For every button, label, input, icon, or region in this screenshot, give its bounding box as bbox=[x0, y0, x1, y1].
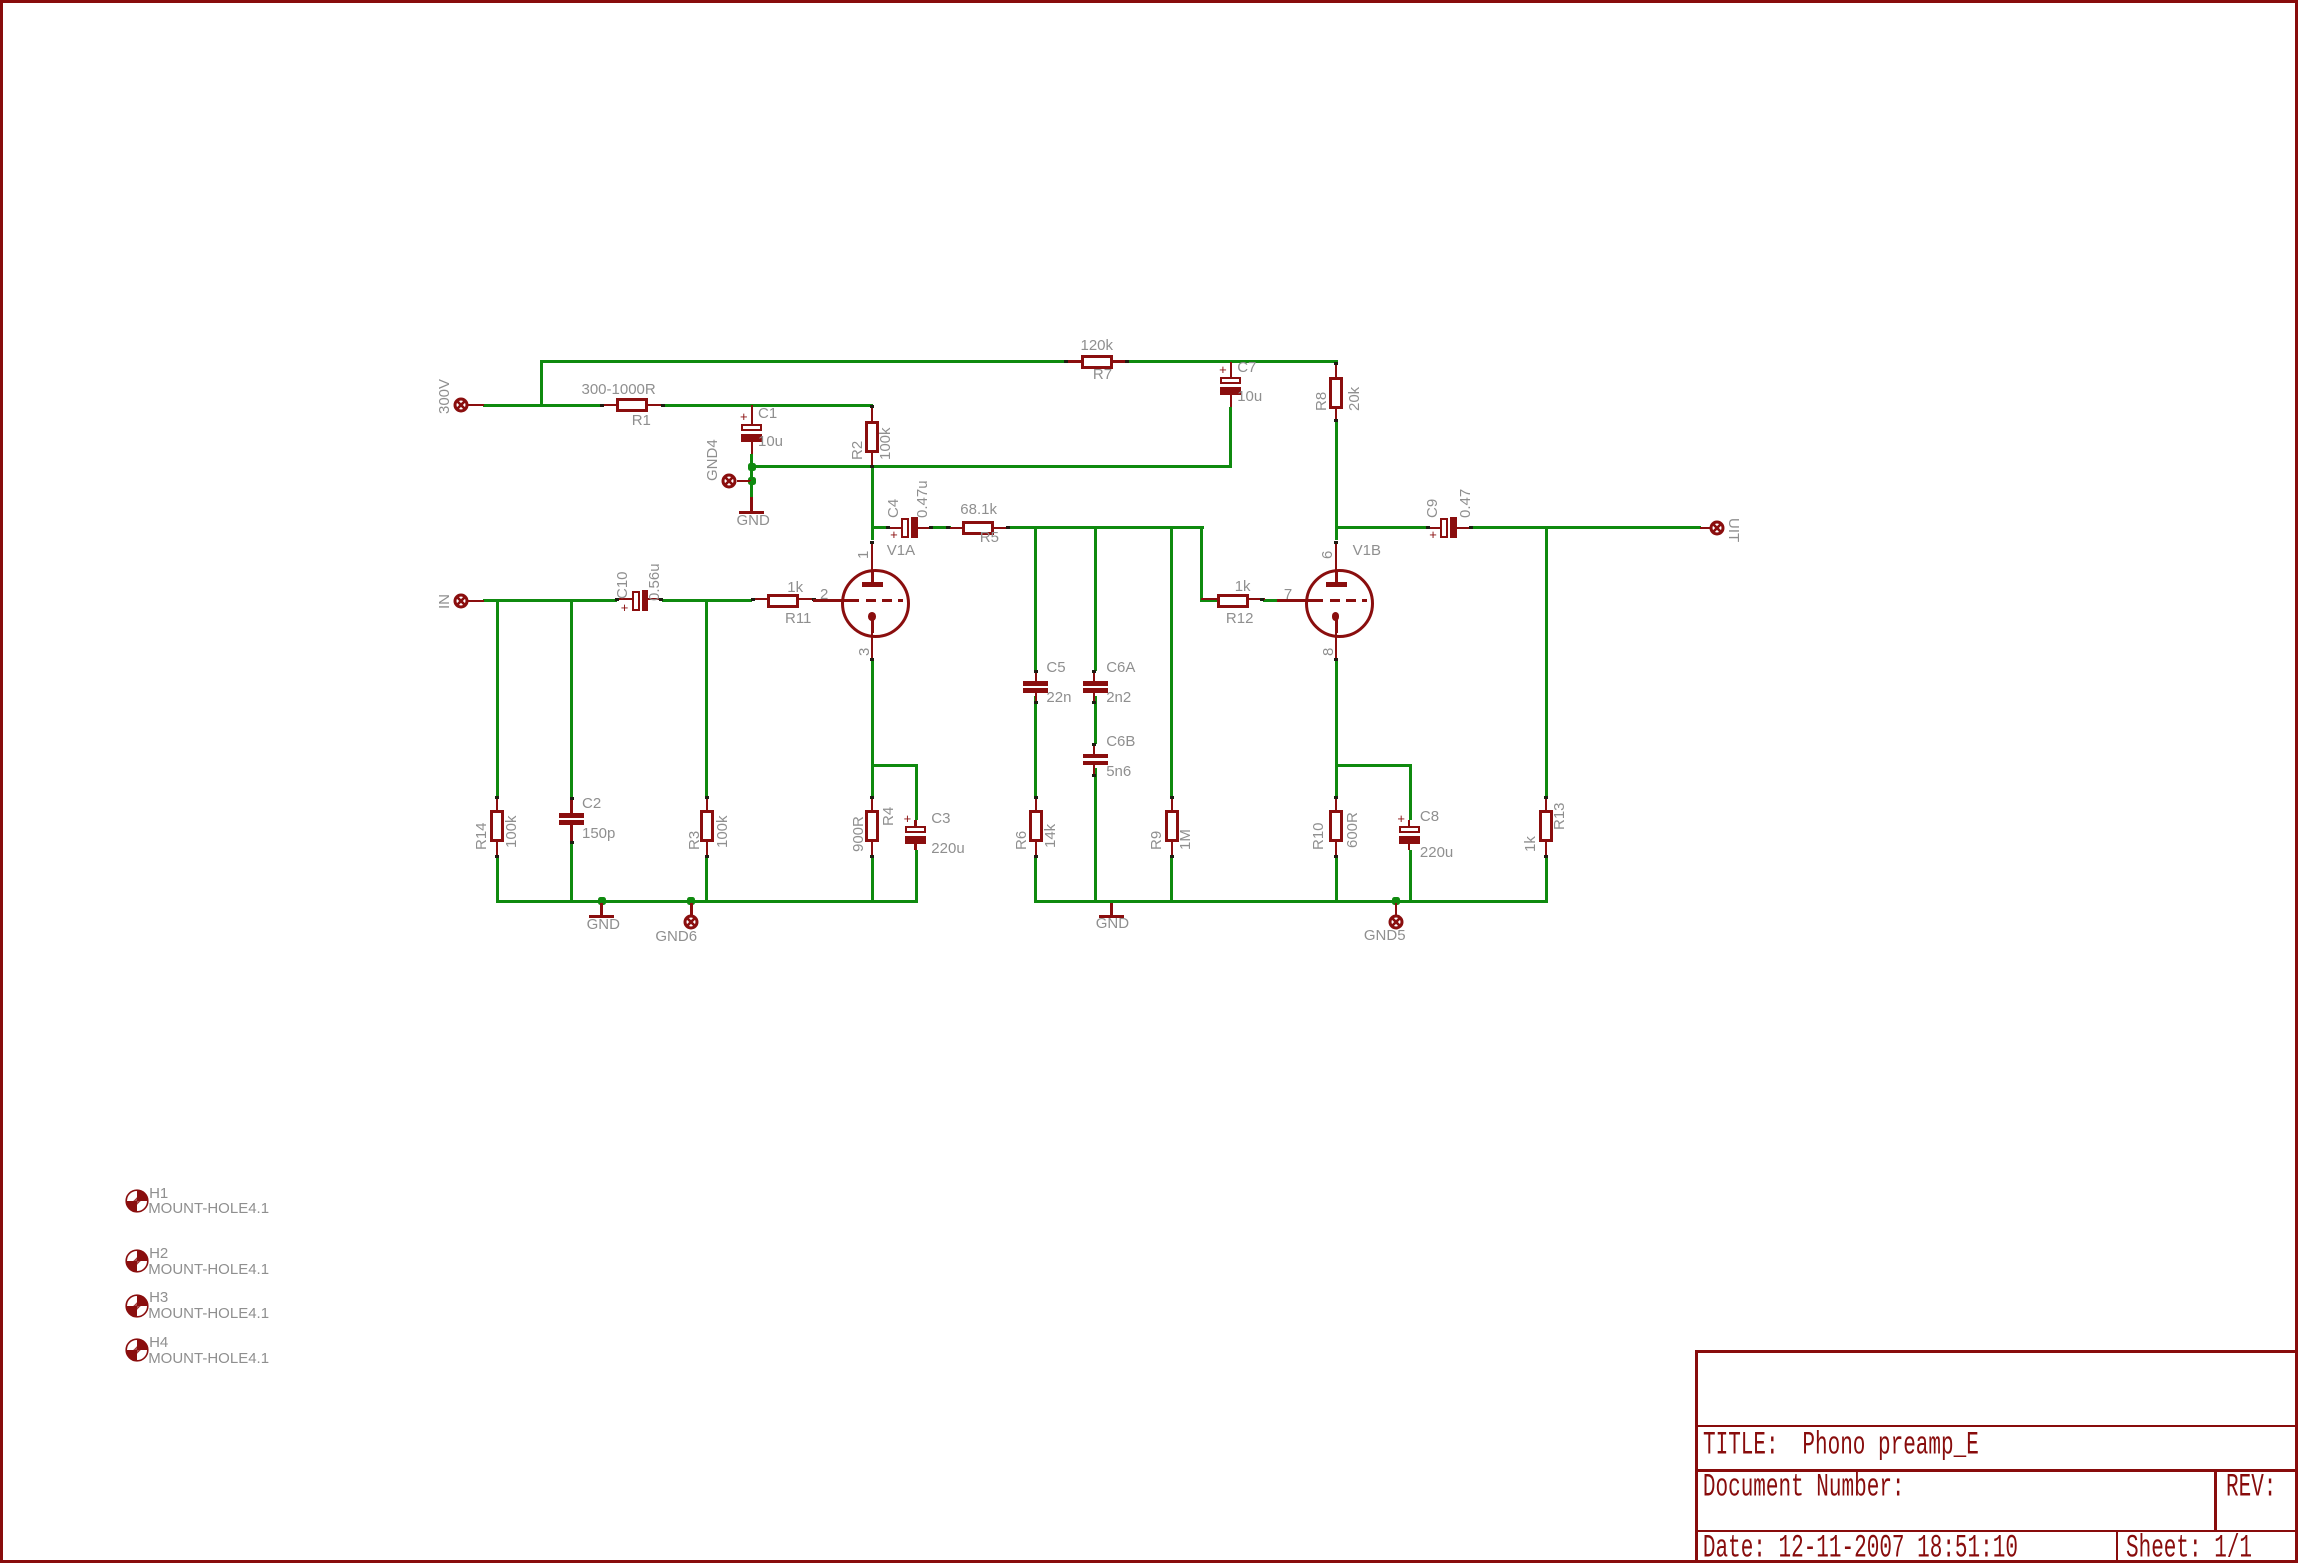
capacitor C7 10u bbox=[1230, 362, 1232, 378]
wire R11 to V1A grid bbox=[813, 600, 843, 602]
wire C7 riser bbox=[1229, 407, 1232, 469]
date text bbox=[1703, 1533, 2018, 1563]
wire C3 to rail bbox=[915, 850, 918, 903]
wire jog V1B bbox=[1336, 764, 1412, 767]
wire R13 riser bbox=[1545, 529, 1548, 796]
input pad IN bbox=[467, 600, 484, 602]
wire R6 to rail bbox=[1034, 858, 1037, 903]
junction left rail GND6 bbox=[687, 897, 695, 905]
wire 300V line (pad to R1) bbox=[483, 404, 601, 407]
capacitor C10 0.56u bbox=[616, 598, 632, 600]
wire R2 to plate node bbox=[871, 467, 874, 529]
junction right rail GND5 bbox=[1392, 897, 1400, 905]
mount hole H4 bbox=[125, 1338, 149, 1362]
wire C10 to R11 bbox=[662, 599, 752, 602]
wire C2 branch lower bbox=[570, 844, 573, 903]
junction C1 bottom bbox=[748, 463, 756, 471]
wire C5 riser bbox=[1034, 529, 1037, 671]
ground pad GND4 bbox=[721, 473, 737, 489]
mount hole H2 bbox=[125, 1249, 149, 1273]
wire C2 branch upper bbox=[570, 602, 573, 798]
capacitor C3 220u bbox=[914, 820, 916, 826]
wire V1A pin1 drop bbox=[871, 529, 874, 540]
wire pin6 node to C9 bbox=[1335, 526, 1428, 529]
wire V1A cathode drop bbox=[871, 659, 874, 796]
wire V1B cathode drop bbox=[1335, 659, 1338, 796]
wire R4 to rail bbox=[871, 858, 874, 903]
wire C6B to rail bbox=[1094, 768, 1097, 903]
ground pad GND5 bbox=[1395, 903, 1397, 915]
title block frame bbox=[1695, 1350, 2295, 1353]
wire C8 to rail bbox=[1409, 850, 1412, 903]
wire C5 to R6 bbox=[1034, 696, 1037, 797]
capacitor C4 0.47u bbox=[887, 527, 902, 529]
resistor R7 120k bbox=[1065, 360, 1081, 362]
supply pad 300V bbox=[467, 404, 484, 406]
output pad UIT bbox=[1700, 527, 1710, 529]
resistor R1 300-1000R bbox=[600, 404, 616, 406]
mount hole H1 bbox=[125, 1189, 149, 1213]
wire R9 to rail bbox=[1170, 858, 1173, 903]
resistor R14 100k bbox=[496, 796, 498, 810]
resistor R11 1k bbox=[752, 598, 768, 600]
wire R3 branch upper bbox=[705, 602, 708, 796]
junction left rail GND bbox=[598, 897, 606, 905]
wire R12 to V1B grid bbox=[1263, 599, 1278, 602]
wire C6A to C6B bbox=[1094, 696, 1097, 744]
resistor R13 1k bbox=[1545, 796, 1547, 810]
resistor R5 68.1k bbox=[947, 527, 963, 529]
wire B+ top rail right segment bbox=[1128, 360, 1338, 363]
capacitor C6A 2n2 bbox=[1093, 671, 1095, 682]
capacitor C5 22n bbox=[1035, 671, 1037, 682]
wire 300V line (R1 to R2) bbox=[664, 404, 873, 407]
wire plate node to C4 bbox=[872, 526, 887, 529]
resistor R2 100k bbox=[871, 405, 873, 422]
wire R8 drop to pin6 node bbox=[1335, 421, 1338, 530]
triode V1B bbox=[1305, 569, 1374, 638]
title text bbox=[1703, 1430, 1779, 1463]
wire C6A riser bbox=[1094, 529, 1097, 671]
rev text bbox=[2226, 1472, 2276, 1505]
triode V1A bbox=[841, 569, 910, 638]
capacitor C8 220u bbox=[1408, 820, 1410, 826]
wire C9 to UIT pad bbox=[1472, 526, 1701, 529]
wire R3 branch lower bbox=[705, 858, 708, 903]
wire drop to R12 bbox=[1200, 599, 1217, 602]
wire R10 to rail bbox=[1335, 858, 1338, 903]
junction GND4 tap bbox=[748, 477, 756, 485]
ground pad GND6 bbox=[690, 903, 692, 915]
ground symbol (left rail) bbox=[600, 903, 603, 916]
sheet text bbox=[2126, 1533, 2252, 1563]
resistor R8 20k bbox=[1335, 363, 1337, 377]
wire R14 branch lower bbox=[496, 858, 499, 903]
wire left ground rail bbox=[496, 900, 919, 903]
wire R13 to rail bbox=[1545, 858, 1548, 903]
resistor R3 100k bbox=[706, 796, 708, 810]
wire C1 to GND4 node bbox=[750, 454, 753, 499]
wire B+ top rail left segment bbox=[540, 360, 1065, 363]
wire C8 riser bbox=[1409, 766, 1412, 820]
wire IN line (pad to C10) bbox=[483, 599, 617, 602]
wire C4 to R5 bbox=[932, 526, 952, 529]
wire V1B pin6 drop bbox=[1335, 529, 1338, 540]
capacitor C1 10u bbox=[751, 405, 753, 424]
wire C1/C7 link bbox=[750, 465, 1232, 468]
wire 300V riser bbox=[540, 360, 543, 406]
resistor R10 600R bbox=[1335, 796, 1337, 810]
resistor R4 900R bbox=[871, 796, 873, 810]
resistor R9 1M bbox=[1171, 796, 1173, 810]
capacitor C9 0.47 bbox=[1427, 527, 1440, 529]
capacitor C6B 5n6 bbox=[1093, 743, 1095, 754]
capacitor C2 150p bbox=[570, 797, 572, 813]
wire C3 riser bbox=[915, 766, 918, 820]
wire right ground rail bbox=[1034, 900, 1547, 903]
ground symbol (under C1) bbox=[750, 481, 753, 499]
mount hole H3 bbox=[125, 1294, 149, 1318]
wire R14 branch upper bbox=[496, 602, 499, 796]
resistor R12 1k bbox=[1201, 598, 1217, 600]
resistor R6 14k bbox=[1035, 796, 1037, 810]
ground symbol (right rail) bbox=[1110, 903, 1113, 916]
wire R9 riser bbox=[1170, 529, 1173, 796]
wire R5 to grid-drop bbox=[1008, 526, 1204, 529]
wire grid-drop vertical bbox=[1200, 526, 1203, 602]
wire cathode jog to C3 bbox=[872, 764, 918, 767]
document number text bbox=[1703, 1472, 1905, 1505]
